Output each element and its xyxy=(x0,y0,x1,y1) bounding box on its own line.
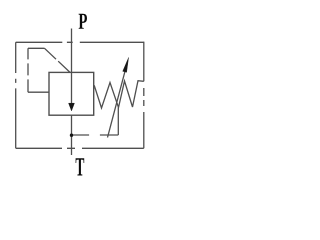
enclosure dashed rectangle top edge xyxy=(16,41,144,43)
arrowhead of adjustment arrow (up-right) xyxy=(123,58,129,73)
wire T outlet xyxy=(71,115,73,155)
port label T xyxy=(76,158,85,175)
arrowhead of flow path arrow (down) xyxy=(69,103,75,111)
pilot control dashed line: left vertical xyxy=(27,48,29,92)
pilot control dashed line: diagonal to square top xyxy=(45,48,71,72)
valve body square xyxy=(49,72,94,115)
pilot control dashed line: top horizontal xyxy=(28,47,45,49)
spring (zigzag) xyxy=(94,81,144,108)
enclosure dashed rectangle bottom edge xyxy=(16,147,144,149)
adjustment arrow shaft across spring xyxy=(108,72,125,138)
flow path arrow shaft inside square xyxy=(71,72,73,104)
drain line vertical to spring chamber xyxy=(117,108,119,136)
enclosure dashed rectangle right edge xyxy=(143,88,145,148)
drain line from T junction (dashed) xyxy=(72,134,119,136)
junction node dot xyxy=(70,134,73,137)
pilot line to spring chamber (solid, top-right) xyxy=(143,42,145,82)
port label P xyxy=(79,14,87,29)
wire P inlet xyxy=(71,29,73,73)
pilot control dashed line: bottom stub to square left side xyxy=(28,91,49,93)
enclosure dashed rectangle left edge xyxy=(15,42,17,148)
